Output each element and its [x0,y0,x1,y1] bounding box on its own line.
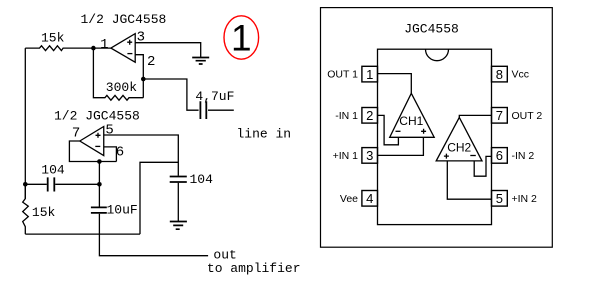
IC notch [426,49,449,61]
wire pin5 branch to output node [140,162,178,234]
svg-text:104: 104 [190,172,214,187]
wire left rail [24,48,26,199]
svg-text:2: 2 [366,108,373,123]
svg-text:+IN 1: +IN 1 [333,150,359,162]
wire pin1 to CH1 output [378,74,412,94]
svg-text:1: 1 [231,17,252,58]
svg-text:7: 7 [72,126,80,142]
wire pin2 vertical [135,55,143,98]
pin 6 box [492,148,508,164]
op-amp U2 1/2 JGC4558 [80,127,104,156]
capacitor C3 104 plates [170,177,187,183]
svg-text:to amplifier: to amplifier [207,261,301,276]
wire node D to C4 [98,184,100,206]
resistor R3 15k (vertical) [23,184,29,234]
wire pin6 [104,147,117,162]
svg-text:+IN 2: +IN 2 [512,193,538,205]
svg-text:8: 8 [496,67,503,82]
ground GND2 [170,222,187,230]
figure number red circle [224,16,259,59]
svg-text:3: 3 [366,148,373,163]
op-amp CH1 triangle [390,93,435,137]
CH2 minus mark [470,155,476,157]
pin 8 box [492,66,508,82]
op-amp U1 1/2 JGC4558 [111,34,135,63]
svg-text:-IN 1: -IN 1 [335,110,358,122]
svg-text:300k: 300k [106,80,137,95]
wire node C down [98,162,100,185]
wire CH2 non-inverting input to pin5 [447,161,491,199]
svg-text:6: 6 [496,148,503,163]
svg-text:4,7uF: 4,7uF [195,89,234,104]
svg-text:4: 4 [366,191,373,206]
svg-text:1: 1 [100,37,108,53]
node C junction dot [97,159,102,164]
svg-text:5: 5 [496,191,503,206]
op-amp U1 minus mark [127,53,132,55]
pinout panel box [321,8,553,248]
pin 4 box [362,191,378,207]
pin 1 box [362,66,378,82]
op-amp CH2 triangle [436,117,482,160]
node A junction dot [91,46,96,51]
node B junction dot [141,77,146,82]
wire bottom [25,233,140,235]
svg-text:1/2 JGC4558: 1/2 JGC4558 [81,12,167,27]
capacitor C2 104 plates [48,177,55,191]
wire pin5 to C3 [104,135,179,176]
wire pin3 to CH1 non-inverting input [378,137,424,155]
svg-text:Vcc: Vcc [512,69,530,81]
svg-text:10uF: 10uF [107,202,138,217]
svg-text:1/2 JGC4558: 1/2 JGC4558 [54,108,140,123]
svg-text:104: 104 [41,162,65,177]
op-amp U2 plus mark [96,133,101,138]
CH1 minus mark [396,130,401,132]
wire pin6 to CH2 inverting input [474,156,491,176]
wire pin2 to CH1 inverting input [378,115,399,144]
op-amp U2 minus mark [95,145,100,147]
wire C3 to ground [177,183,179,222]
svg-text:7: 7 [496,108,503,123]
wire CH2 output to pin7 [459,115,491,117]
svg-text:15k: 15k [32,205,56,220]
resistor R2 300k (feedback) [93,48,143,100]
node rail junction dot [23,182,28,187]
svg-text:5: 5 [105,123,113,139]
capacitor C1 4,7uF plates [200,101,206,119]
svg-text:CH1: CH1 [399,114,423,128]
ground GND1 [192,58,209,65]
wire C1 to line in [208,109,234,111]
wire node B to C1 [143,79,198,110]
CH1 plus mark [421,129,426,134]
node D junction dot [97,182,102,187]
pin 5 box [492,191,508,207]
svg-text:line in: line in [237,126,292,141]
CH2 plus mark [444,154,449,159]
svg-text:CH2: CH2 [447,140,471,154]
wire U2 feedback loop [69,141,116,162]
capacitor C4 10uF plates [91,207,107,213]
svg-text:JGC4558: JGC4558 [404,22,459,37]
IC DIP body [378,49,492,224]
pin 3 box [362,148,378,164]
svg-text:15k: 15k [41,30,65,45]
pin 2 box [362,108,378,124]
svg-text:-IN 2: -IN 2 [512,150,535,162]
pin 7 box [492,108,508,124]
wire C4 to out [99,214,208,256]
svg-text:1: 1 [366,67,373,82]
resistor R1 15k (top) [25,46,111,51]
svg-text:2: 2 [147,54,155,70]
wire pin3 to ground [135,43,201,58]
wire C2 to node D [55,183,99,185]
svg-text:OUT 2: OUT 2 [512,110,543,122]
wire rail to C2 [25,183,47,185]
op-amp U1 plus mark [127,40,132,45]
svg-text:Vee: Vee [340,193,358,205]
svg-text:OUT 1: OUT 1 [327,69,358,81]
